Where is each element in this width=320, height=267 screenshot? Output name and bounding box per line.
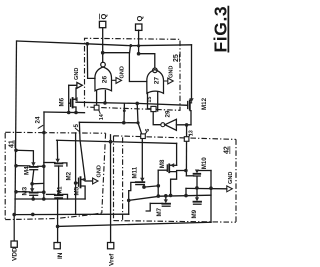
svg-text:42: 42 — [224, 146, 231, 154]
svg-text:M11: M11 — [132, 166, 139, 178]
svg-text:M9: M9 — [191, 209, 198, 218]
svg-text:M10: M10 — [201, 157, 208, 170]
svg-text:GND: GND — [169, 66, 175, 78]
svg-text:25: 25 — [173, 54, 180, 62]
svg-text:GND: GND — [119, 66, 125, 78]
svg-text:IN: IN — [57, 252, 64, 259]
svg-text:24: 24 — [35, 116, 42, 123]
svg-text:M5: M5 — [74, 186, 81, 195]
svg-text:GND: GND — [97, 165, 103, 177]
svg-text:M12: M12 — [201, 97, 208, 110]
svg-text:29: 29 — [164, 110, 171, 117]
svg-text:M7: M7 — [156, 207, 163, 216]
svg-text:14: 14 — [99, 114, 105, 120]
svg-text:27: 27 — [153, 77, 160, 85]
svg-text:41: 41 — [9, 140, 16, 148]
svg-text:M6: M6 — [59, 97, 66, 106]
svg-text:6: 6 — [145, 129, 151, 132]
svg-text:Q: Q — [135, 16, 144, 22]
svg-text:M8: M8 — [159, 159, 166, 168]
svg-text:M1: M1 — [57, 186, 64, 195]
svg-text:13: 13 — [189, 130, 195, 136]
svg-text:GND: GND — [74, 68, 80, 80]
svg-text:15: 15 — [147, 97, 153, 103]
svg-text:Q: Q — [99, 14, 108, 20]
svg-text:M4: M4 — [24, 166, 31, 175]
svg-text:5: 5 — [73, 124, 80, 128]
svg-text:GND: GND — [228, 172, 234, 184]
svg-text:Vref: Vref — [109, 253, 116, 266]
svg-text:26: 26 — [101, 76, 108, 84]
svg-text:FiG.3: FiG.3 — [211, 6, 231, 53]
svg-text:M2: M2 — [66, 171, 73, 180]
svg-text:M3: M3 — [22, 186, 29, 195]
svg-text:VDD: VDD — [12, 247, 19, 261]
